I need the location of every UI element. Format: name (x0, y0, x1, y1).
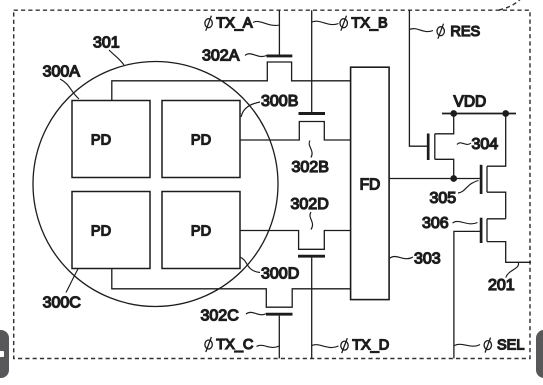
wire PD300C to transfer gate 302C to FD (112, 269, 351, 308)
wire gate 302C to phi TX_C line (278, 316, 280, 359)
wire PD300A to transfer gate 302A to FD (112, 62, 351, 101)
svg-text:FD: FD (360, 176, 381, 193)
label 302D (291, 196, 329, 230)
svg-text:PD: PD (91, 223, 111, 239)
svg-text:SEL: SEL (497, 338, 524, 354)
svg-text:300D: 300D (261, 265, 299, 282)
signal label phi RES (409, 24, 480, 40)
transistor 302C gate bar (266, 313, 293, 316)
label 300D (240, 257, 299, 282)
svg-text:304: 304 (472, 136, 499, 153)
svg-text:300B: 300B (261, 93, 298, 110)
transistor 302A gate bar (267, 54, 293, 57)
label 303 (390, 251, 441, 268)
svg-text:301: 301 (93, 35, 120, 52)
photodiode 300A (box PD top-left) (72, 101, 150, 178)
right nav button overlay (536, 330, 543, 378)
svg-text:306: 306 (422, 215, 449, 232)
svg-text:TX_A: TX_A (216, 16, 253, 32)
svg-text:201: 201 (488, 277, 515, 294)
label 300C (43, 269, 81, 311)
signal label phi TX_A (205, 16, 279, 32)
microlens circle 301 (33, 62, 278, 307)
label 300B (241, 93, 298, 117)
label 300A (43, 64, 81, 100)
junction dot VDD / 305 drain (502, 110, 509, 117)
svg-text:VDD: VDD (454, 93, 487, 110)
floating diffusion box FD 303 (351, 67, 390, 299)
VDD power rail (442, 113, 516, 115)
label 306 (422, 215, 478, 232)
label 302B (292, 141, 329, 177)
wire FD to gate of transistor 305 (389, 178, 480, 180)
svg-text:TX_D: TX_D (352, 338, 389, 354)
wire gate 302B to phi TX_B line (311, 10, 313, 112)
wire phi RES line to gate of 304 (409, 10, 427, 146)
photodiode 300D (box PD bottom-right) (162, 192, 240, 269)
label 304 (457, 136, 498, 153)
photodiode 300B (box PD top-right) (162, 101, 240, 178)
label 301 (93, 35, 124, 66)
wire gate 302D to phi TX_D line (311, 258, 313, 359)
svg-text:303: 303 (414, 251, 441, 268)
dashed leader arc at top-right of boundary (499, 0, 521, 10)
svg-text:PD: PD (191, 223, 211, 239)
svg-text:302D: 302D (291, 196, 329, 213)
label 201 (output line) (488, 263, 519, 294)
svg-text:RES: RES (450, 24, 480, 40)
svg-text:302B: 302B (292, 159, 329, 176)
transistor 302B gate bar (299, 112, 326, 115)
svg-text:302A: 302A (202, 48, 240, 65)
wire PD300D to transfer gate 302D to FD (240, 231, 351, 250)
left nav button chevron fragment (0, 351, 4, 357)
wire PD300B to transfer gate 302B to FD (240, 122, 351, 141)
svg-text:PD: PD (91, 132, 111, 148)
svg-text:TX_B: TX_B (351, 16, 387, 32)
label 302C (201, 308, 267, 325)
label 305 (430, 181, 479, 208)
reset transistor 304 (428, 114, 454, 179)
transistor 302D gate bar (298, 255, 325, 258)
signal label phi TX_C (205, 337, 279, 353)
signal label phi SEL (455, 338, 525, 354)
photodiode 300C (box PD bottom-left) (72, 192, 150, 269)
junction node dot on FD wire (450, 175, 457, 182)
signal label phi TX_D (312, 338, 389, 354)
wire gate 302A to phi TX_A line (278, 10, 280, 54)
signal label phi TX_B (312, 16, 388, 32)
select transistor 306 (481, 218, 531, 263)
label 302A (202, 48, 267, 65)
left nav button overlay (0, 330, 9, 378)
wire phi SEL line to gate of 306 (454, 231, 480, 358)
svg-text:TX_C: TX_C (216, 337, 253, 353)
svg-text:305: 305 (430, 190, 457, 207)
svg-text:PD: PD (191, 132, 211, 148)
source follower transistor 305 (481, 114, 506, 219)
junction dot VDD / 304 drain (450, 110, 457, 117)
svg-text:300A: 300A (43, 64, 81, 81)
svg-text:302C: 302C (201, 308, 239, 325)
svg-text:300C: 300C (43, 294, 81, 311)
